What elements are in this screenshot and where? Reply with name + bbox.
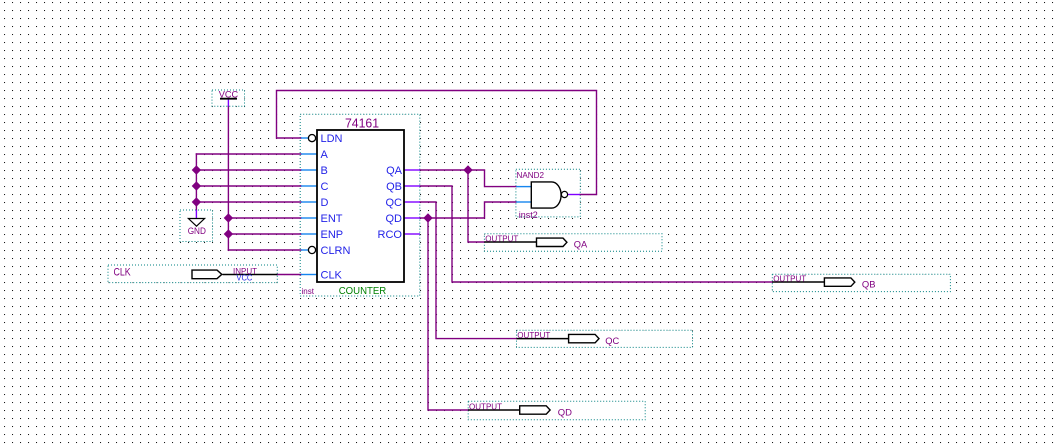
svg-text:QB: QB	[386, 181, 402, 193]
svg-text:A: A	[321, 149, 329, 161]
wire: VCC drop to CLRN with ENT/ENP taps	[227, 106, 229, 250]
junction dots (diamonds)	[192, 165, 473, 238]
stub D	[301, 201, 317, 203]
output pin QA box	[484, 234, 662, 251]
stub CLRN	[301, 249, 308, 251]
svg-text:QB: QB	[862, 279, 876, 290]
svg-text:QD: QD	[558, 407, 572, 418]
svg-text:CLK: CLK	[321, 270, 343, 282]
stub ENT	[301, 217, 317, 219]
svg-text:ENP: ENP	[321, 229, 344, 241]
output pin QA: lead line	[484, 241, 537, 243]
LDN bubble	[308, 135, 315, 142]
svg-text:RCO: RCO	[378, 229, 403, 241]
stub QD	[404, 217, 420, 219]
output pin QB box	[772, 274, 950, 291]
svg-text:QD: QD	[386, 213, 403, 225]
input pin CLK: lead line	[223, 274, 278, 276]
output pin QC box	[517, 330, 693, 347]
svg-text:OUTPUT: OUTPUT	[517, 330, 550, 340]
svg-text:inst: inst	[302, 287, 315, 296]
junction D/GND	[192, 197, 201, 206]
svg-text:GND: GND	[188, 226, 207, 236]
svg-text:OUTPUT: OUTPUT	[485, 234, 518, 244]
wire: QC to OUTPUT QC	[420, 202, 517, 339]
svg-text:ENT: ENT	[321, 213, 343, 225]
svg-text:C: C	[321, 181, 329, 193]
wire: NAND output feedback to LDN	[277, 91, 597, 195]
counter U_74161 box	[300, 114, 420, 296]
junction ENP/VCC	[224, 229, 233, 238]
stub GND symbol	[195, 210, 197, 218]
symbol selection boxes (white fill, teal dotted)	[108, 90, 950, 420]
blue input pin stubs	[301, 138, 532, 275]
stub C	[301, 185, 317, 187]
stub ENP	[301, 233, 317, 235]
output pin QD box	[468, 401, 645, 420]
vcc symbol bar	[220, 98, 237, 100]
svg-text:QA: QA	[386, 165, 403, 177]
stub NAND in A	[516, 186, 531, 188]
stub NAND in B	[516, 201, 531, 203]
svg-text:VCC: VCC	[219, 90, 239, 100]
output pin QB: lead line	[772, 281, 825, 283]
output pin QC: flag	[569, 334, 599, 342]
vcc symbol box	[212, 90, 245, 106]
stub QA	[404, 169, 420, 171]
svg-text:74161: 74161	[345, 116, 379, 131]
wire: GND riser and A/B/C/D taps	[195, 154, 197, 210]
junction QD net	[423, 213, 432, 222]
stub RCO	[404, 233, 420, 235]
output pin QC: lead line	[517, 338, 570, 340]
wire: QA junction down to OUTPUT QA	[468, 170, 484, 242]
wire: QA to NAND input A	[420, 170, 516, 187]
stub NAND output	[568, 194, 580, 196]
nand2 bubble	[561, 191, 567, 197]
gnd symbol triangle	[188, 219, 204, 227]
junction B/GND	[192, 165, 201, 174]
stub B	[301, 169, 317, 171]
svg-text:B: B	[321, 165, 328, 177]
counter 74161 body	[317, 130, 404, 282]
output pin QD: lead line	[468, 409, 521, 411]
svg-text:QC: QC	[605, 336, 619, 347]
stub QC	[404, 201, 420, 203]
wire: CLK input to counter	[277, 274, 301, 276]
stub A	[301, 153, 317, 155]
junction C/GND	[192, 181, 201, 190]
svg-text:COUNTER: COUNTER	[339, 285, 387, 297]
output pin QD: flag	[520, 406, 550, 414]
violet output pin stubs	[196, 100, 580, 235]
stub CLK	[301, 274, 317, 276]
output pin QA: flag	[537, 238, 567, 246]
svg-text:LDN: LDN	[321, 133, 343, 145]
junction QA net	[463, 165, 472, 174]
junction ENT/VCC	[224, 213, 233, 222]
stub VCC symbol	[227, 100, 229, 107]
svg-text:VCC: VCC	[236, 273, 252, 282]
gnd symbol box	[180, 210, 213, 242]
svg-text:NAND2: NAND2	[517, 170, 545, 180]
svg-text:QC: QC	[386, 197, 403, 209]
counter pin labels left	[321, 133, 403, 282]
wire: QB to OUTPUT QB	[420, 186, 772, 282]
stub LDN	[301, 137, 308, 139]
svg-text:OUTPUT: OUTPUT	[469, 402, 502, 412]
nand2 U2 body	[531, 182, 561, 208]
wire: QD junction down to OUTPUT QD	[428, 218, 468, 410]
wires (dark purple)	[196, 91, 772, 411]
svg-text:CLRN: CLRN	[321, 245, 351, 257]
svg-text:inst2: inst2	[519, 210, 538, 220]
svg-text:OUTPUT: OUTPUT	[773, 274, 806, 284]
nand2 box	[516, 169, 580, 217]
output pin QB: flag	[824, 278, 854, 286]
svg-text:D: D	[321, 197, 329, 209]
CLRN bubble	[308, 246, 315, 253]
svg-text:QA: QA	[574, 239, 588, 250]
input pin CLK box	[108, 265, 277, 283]
svg-text:CLK: CLK	[114, 267, 132, 279]
input pin CLK: flag	[192, 270, 222, 279]
wire: QD to NAND input B	[420, 202, 516, 218]
stub QB	[404, 185, 420, 187]
